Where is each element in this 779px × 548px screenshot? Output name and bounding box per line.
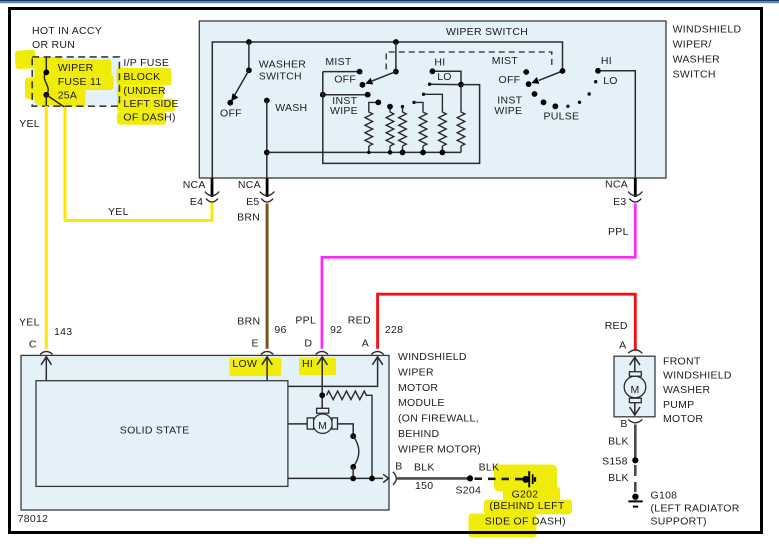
svg-text:(UNDER: (UNDER: [123, 85, 166, 97]
connector E5: [260, 178, 274, 202]
svg-text:WINDSHIELD: WINDSHIELD: [663, 369, 732, 381]
svg-text:BRN: BRN: [237, 212, 260, 224]
splice S158: [632, 457, 638, 463]
node: switch/bus junction: [350, 476, 356, 482]
svg-text:A: A: [619, 340, 626, 352]
svg-text:OFF: OFF: [334, 74, 356, 86]
svg-text:228: 228: [385, 324, 403, 336]
svg-text:BLK: BLK: [414, 462, 435, 474]
module pin E input arrow (LOW): [262, 357, 272, 381]
wiper arm feed (middle switch): [393, 42, 399, 75]
svg-text:(LEFT RADIATOR: (LEFT RADIATOR: [651, 502, 740, 514]
svg-text:B: B: [395, 460, 402, 472]
svg-text:WASHER: WASHER: [259, 58, 307, 70]
middle switch LO contact + wire: [428, 83, 461, 86]
svg-text:MOTOR: MOTOR: [398, 382, 438, 394]
svg-text:HI: HI: [434, 56, 445, 68]
svg-text:MOTOR: MOTOR: [663, 413, 703, 425]
washer switch wiper arm (arrow to OFF): [232, 70, 249, 100]
highlighter LOW: [230, 358, 282, 376]
wire motor right to speed switch: [338, 424, 354, 436]
svg-text:WIPE: WIPE: [330, 105, 358, 117]
module pin C input arrow: [41, 357, 51, 381]
wire RED circuit 228 module pin A to pump pin A: [378, 294, 636, 350]
svg-text:143: 143: [54, 326, 72, 338]
svg-text:FUSE 11: FUSE 11: [58, 76, 102, 88]
svg-text:E3: E3: [613, 196, 626, 208]
pump input arrow: [630, 357, 640, 372]
right switch INST WIPE contact: [532, 91, 538, 97]
ground G202: [522, 471, 535, 487]
svg-text:NCA: NCA: [238, 179, 261, 191]
svg-text:MIST: MIST: [325, 56, 352, 68]
svg-text:WASHER: WASHER: [673, 54, 721, 66]
highlighter G202 area: [469, 465, 573, 538]
svg-text:D: D: [304, 338, 312, 350]
svg-text:BEHIND: BEHIND: [398, 428, 439, 440]
svg-text:OFF: OFF: [220, 107, 242, 119]
splice S204: [467, 475, 473, 481]
node: WASH/resistor-bus junction: [264, 150, 270, 156]
svg-text:YEL: YEL: [108, 206, 129, 218]
svg-text:HI: HI: [601, 55, 612, 67]
svg-text:(BEHIND LEFT: (BEHIND LEFT: [489, 500, 564, 512]
node: junction on resistor box left edge: [320, 92, 326, 98]
svg-text:OF DASH): OF DASH): [123, 112, 175, 124]
svg-text:HI: HI: [302, 358, 313, 370]
right switch wiper arm feed + arrow to OFF: [532, 68, 565, 83]
wire BLK pump to S158: [634, 425, 637, 460]
I/P fuse block dashed border: [32, 57, 119, 106]
svg-text:OFF: OFF: [499, 74, 521, 86]
resistor R5: [422, 93, 446, 156]
svg-text:78012: 78012: [18, 513, 49, 525]
connector E4: [205, 178, 219, 202]
svg-text:M: M: [318, 420, 327, 432]
svg-text:SWITCH: SWITCH: [259, 70, 302, 82]
middle switch wiper arm (arrow to OFF): [366, 72, 396, 85]
I/P fuse block fill: [32, 57, 119, 106]
svg-text:PPL: PPL: [295, 315, 316, 327]
resistor R6: [457, 85, 465, 153]
washer pump motor box: [614, 356, 655, 417]
svg-text:MODULE: MODULE: [398, 397, 445, 409]
speed switch contact lower: [350, 464, 356, 478]
svg-text:YEL: YEL: [19, 118, 40, 130]
module pin A arrow + feed from solid state: [288, 357, 383, 387]
svg-text:FRONT: FRONT: [663, 356, 701, 368]
svg-text:LEFT SIDE: LEFT SIDE: [123, 98, 178, 110]
svg-text:YEL: YEL: [19, 317, 40, 329]
wire BLK dashed to G108: [634, 465, 637, 492]
svg-text:WIPER MOTOR): WIPER MOTOR): [398, 443, 481, 455]
pump pin B connector: [628, 420, 642, 423]
module pin D input arrow (HI) to motor: [317, 357, 327, 409]
middle switch OFF contact: [360, 82, 366, 88]
svg-text:BRN: BRN: [237, 316, 260, 328]
svg-text:BLK: BLK: [608, 472, 629, 484]
wiper motor M1 in module: [307, 408, 337, 433]
svg-text:RED: RED: [348, 315, 371, 327]
svg-text:LO: LO: [603, 75, 618, 87]
resistor R1: [365, 100, 381, 155]
module pin D connector cap: [316, 352, 328, 355]
resistor R3: [399, 105, 407, 155]
right switch HI contact + wire to E3: [595, 68, 635, 178]
solid state box: [36, 381, 288, 487]
wiper switch inner bus wire: [212, 42, 562, 178]
svg-text:96: 96: [274, 324, 286, 336]
svg-text:WIPER/: WIPER/: [673, 39, 712, 51]
speed switch arc: [353, 436, 359, 467]
svg-text:PULSE: PULSE: [544, 110, 580, 122]
svg-text:BLOCK: BLOCK: [123, 71, 160, 83]
svg-text:25A: 25A: [58, 90, 78, 102]
washer switch WASH contact: [264, 98, 270, 104]
washer switch feed wire: [246, 42, 252, 73]
svg-text:MIST: MIST: [492, 55, 519, 67]
svg-text:LO: LO: [437, 71, 452, 83]
svg-text:OR RUN: OR RUN: [32, 39, 75, 51]
svg-text:WASHER: WASHER: [663, 384, 711, 396]
svg-text:PUMP: PUMP: [663, 399, 694, 411]
svg-text:E5: E5: [246, 196, 259, 208]
wiper motor module box: [21, 355, 389, 510]
mechanical linkage (dashed) between switch arms: [386, 52, 552, 70]
svg-text:SOLID STATE: SOLID STATE: [120, 424, 190, 436]
module pin C connector cap: [40, 352, 52, 355]
svg-text:(ON FIREWALL,: (ON FIREWALL,: [398, 413, 479, 425]
right switch PULSE contact arc dots: [541, 92, 591, 109]
wire BLK dashed to G202: [475, 477, 524, 480]
wire PPL circuit 92 E3 to module pin D: [322, 204, 635, 349]
node: bus junction at washer switch: [246, 39, 252, 45]
pump pin A connector cap: [628, 350, 642, 353]
wire WASH contact down to resistor bus and switch box exit E5: [266, 101, 268, 179]
svg-text:S158: S158: [602, 456, 628, 468]
resistor R2: [386, 104, 394, 155]
svg-text:A: A: [362, 338, 369, 350]
top blue bar: [0, 0, 779, 1]
wiper switch box: [199, 21, 666, 178]
highlighter HI: [299, 358, 336, 376]
node: HI/LO junction above R6: [458, 82, 464, 88]
middle switch INST WIPE contact + wire to left edge: [323, 92, 371, 98]
middle switch MIST contact + wire to resistor box: [323, 69, 363, 75]
washer pump motor M2: [624, 372, 646, 403]
washer switch OFF contact: [227, 100, 233, 106]
resistor network box outline: [323, 72, 480, 164]
right switch LO contact: [594, 80, 597, 83]
svg-text:M: M: [630, 384, 639, 396]
module ground bus wire to pin B: [288, 474, 389, 482]
wire solid state to motor left: [288, 423, 307, 425]
module pin A connector cap: [371, 352, 383, 355]
svg-text:PPL: PPL: [608, 226, 629, 238]
svg-text:E: E: [252, 338, 259, 350]
right switch OFF contact: [526, 81, 532, 87]
svg-text:WIPER SWITCH: WIPER SWITCH: [446, 26, 528, 38]
svg-text:G108: G108: [651, 490, 678, 502]
svg-text:WIPER: WIPER: [398, 367, 434, 379]
connector E3: [628, 178, 642, 202]
svg-text:WIPER: WIPER: [58, 62, 94, 74]
svg-text:BLK: BLK: [608, 436, 629, 448]
svg-text:NCA: NCA: [605, 179, 628, 191]
fuse F11 WIPER FUSE 25A: [43, 57, 65, 108]
node: resistor/bus junction: [369, 476, 375, 482]
middle switch HI contact + wire: [430, 68, 462, 84]
wire YEL circuit 143 fuse to module pin C: [45, 106, 48, 349]
svg-text:E4: E4: [190, 196, 203, 208]
svg-text:BLK: BLK: [479, 462, 500, 474]
resistor in module (shunt): [327, 391, 373, 478]
svg-text:WASH: WASH: [275, 102, 307, 114]
svg-text:S204: S204: [456, 485, 482, 497]
svg-text:SWITCH: SWITCH: [673, 69, 716, 81]
svg-text:LOW: LOW: [232, 358, 257, 370]
svg-text:92: 92: [330, 324, 342, 336]
resistor R4: [412, 101, 427, 156]
highlighter marks fuse area: [15, 50, 175, 125]
node: bus junction at wiper arm: [393, 39, 399, 45]
svg-text:SIDE OF DASH): SIDE OF DASH): [485, 516, 566, 528]
pump output arrow down: [630, 403, 640, 415]
module pin B connector: [393, 472, 396, 485]
resistor bus wire: [267, 151, 461, 153]
svg-text:B: B: [620, 418, 627, 430]
node: motor/resistor junction: [319, 392, 325, 398]
svg-text:I/P FUSE: I/P FUSE: [123, 57, 169, 69]
module pin E connector cap: [261, 352, 273, 355]
svg-text:WINDSHIELD: WINDSHIELD: [673, 23, 742, 35]
speed switch contact upper: [350, 433, 356, 439]
wire BLK circuit 150 to S204: [397, 477, 470, 480]
svg-text:RED: RED: [605, 320, 628, 332]
svg-text:C: C: [29, 339, 37, 351]
right switch MIST contact: [523, 69, 529, 75]
svg-text:150: 150: [415, 480, 433, 492]
svg-text:G202: G202: [512, 489, 539, 501]
ground G108: [628, 494, 642, 507]
wire YEL fuse to connector E4: [65, 107, 212, 221]
svg-text:SUPPORT): SUPPORT): [651, 515, 707, 527]
wire BRN circuit 96 E5 to module pin E: [266, 204, 269, 349]
svg-text:WIPE: WIPE: [494, 105, 522, 117]
svg-text:HOT IN ACCY: HOT IN ACCY: [32, 25, 102, 37]
svg-text:WINDSHIELD: WINDSHIELD: [398, 351, 467, 363]
svg-text:NCA: NCA: [183, 179, 206, 191]
